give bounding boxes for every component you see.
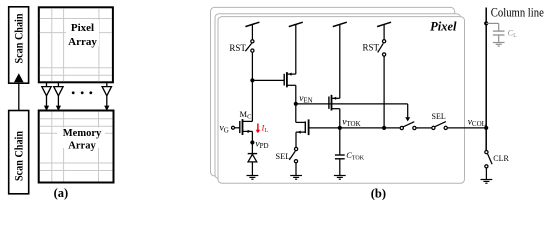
- svg-text:Pixel: Pixel: [430, 20, 457, 34]
- stacked pixel outline middle: [215, 14, 461, 179]
- wire supply4 to RST2: [383, 24, 385, 39]
- node RST1 junction: [250, 78, 254, 82]
- pixel array grid: [40, 8, 112, 81]
- wire supply3 to T2 drain: [339, 24, 341, 98]
- pixel cell outline front: [218, 17, 465, 184]
- memory array label: [57, 128, 105, 149]
- T1 arrow: [288, 73, 291, 76]
- node vCOL junction: [484, 126, 488, 130]
- svg-text:RST: RST: [363, 43, 380, 53]
- capacitor CL (gray): [486, 23, 504, 46]
- ground under photodiode: [247, 176, 259, 180]
- ground under SEL switch: [290, 176, 302, 180]
- column line wire: [485, 8, 487, 151]
- wire RST2 to VTOK rail: [383, 56, 385, 128]
- wire T3 source to SEL switch: [296, 131, 305, 133]
- wire VEN to T3 drain: [295, 104, 297, 123]
- memory array box: [39, 111, 114, 183]
- switch SEL bottom: [295, 147, 298, 150]
- node RST2/rail junction: [382, 126, 386, 130]
- svg-text:Column line: Column line: [491, 5, 544, 20]
- svg-text:Array: Array: [68, 140, 96, 151]
- supply bar 1: [245, 22, 259, 26]
- node column/CL: [484, 21, 488, 25]
- ellipsis dots: [72, 91, 75, 94]
- wire supply2 to T1 drain: [295, 24, 297, 74]
- arrow up into scan chain 1: [14, 73, 24, 82]
- svg-text:Scan Chain: Scan Chain: [14, 130, 26, 181]
- current arrow IL: [257, 124, 259, 131]
- wire SEL to column line: [447, 127, 486, 129]
- scan chain 1 box: [9, 7, 29, 83]
- node VTOK: [338, 126, 342, 130]
- wire RST1 to MC drain: [251, 52, 253, 121]
- capacitor CTOK: [339, 128, 341, 154]
- wire between switches: [416, 127, 432, 129]
- transistor T1: [283, 74, 285, 86]
- switch RST1: [251, 40, 254, 43]
- switch A (enable): [400, 126, 403, 129]
- column amplifier triangle 2: [54, 83, 63, 107]
- switch SEL (column): [432, 126, 435, 129]
- transistor MC: [239, 121, 241, 133]
- pixel array box: [39, 7, 113, 82]
- wire VTOK rail: [309, 127, 401, 129]
- svg-text:SEL: SEL: [275, 151, 290, 161]
- ground under CLR: [481, 180, 493, 184]
- T3 arrow: [297, 131, 300, 134]
- supply bar 4: [377, 22, 391, 26]
- photodiode PD: [251, 143, 253, 154]
- wire supply1 to RST1: [251, 24, 253, 39]
- column amplifier triangle 1: [42, 83, 51, 107]
- column amplifier triangle 3: [102, 83, 111, 107]
- node VPD: [250, 140, 254, 144]
- svg-text:Pixel: Pixel: [71, 22, 94, 34]
- svg-text:(b): (b): [371, 187, 386, 201]
- stacked pixel outline back: [211, 7, 455, 176]
- T2 arrow: [333, 97, 336, 100]
- node VEN: [294, 102, 298, 106]
- wire VEN rail to switch arrow: [296, 103, 408, 105]
- MC arrow: [248, 130, 251, 133]
- supply bar 2: [289, 22, 303, 26]
- scan chain 2 box: [9, 111, 29, 194]
- supply bar 3: [333, 22, 347, 26]
- wire T2 source to VTOK node: [339, 109, 341, 128]
- wire T1 gate lead: [252, 79, 284, 81]
- svg-text:Memory: Memory: [63, 128, 102, 139]
- svg-text:Scan Chain: Scan Chain: [14, 13, 26, 64]
- svg-text:RST: RST: [229, 43, 246, 53]
- arrow onto switch A: [405, 117, 410, 121]
- svg-text:Array: Array: [68, 36, 97, 48]
- memory array grid: [40, 112, 113, 182]
- ground under CTOK: [334, 176, 346, 180]
- svg-text:(a): (a): [54, 186, 69, 200]
- switch CLR: [485, 151, 488, 154]
- switch RST2: [383, 40, 386, 43]
- svg-text:CLR: CLR: [493, 154, 509, 163]
- wire connector between scan chains: [18, 82, 20, 111]
- arrow down into scan chain 2: [14, 111, 24, 119]
- transistor T3: [304, 121, 306, 133]
- pixel array label: [66, 20, 99, 46]
- svg-text:SEL: SEL: [432, 112, 446, 121]
- wire T1 source to VEN node: [295, 85, 297, 104]
- transistor T2: [328, 97, 330, 109]
- transistor MC gate terminal: [232, 126, 235, 129]
- wire MC source to VPD: [251, 131, 253, 142]
